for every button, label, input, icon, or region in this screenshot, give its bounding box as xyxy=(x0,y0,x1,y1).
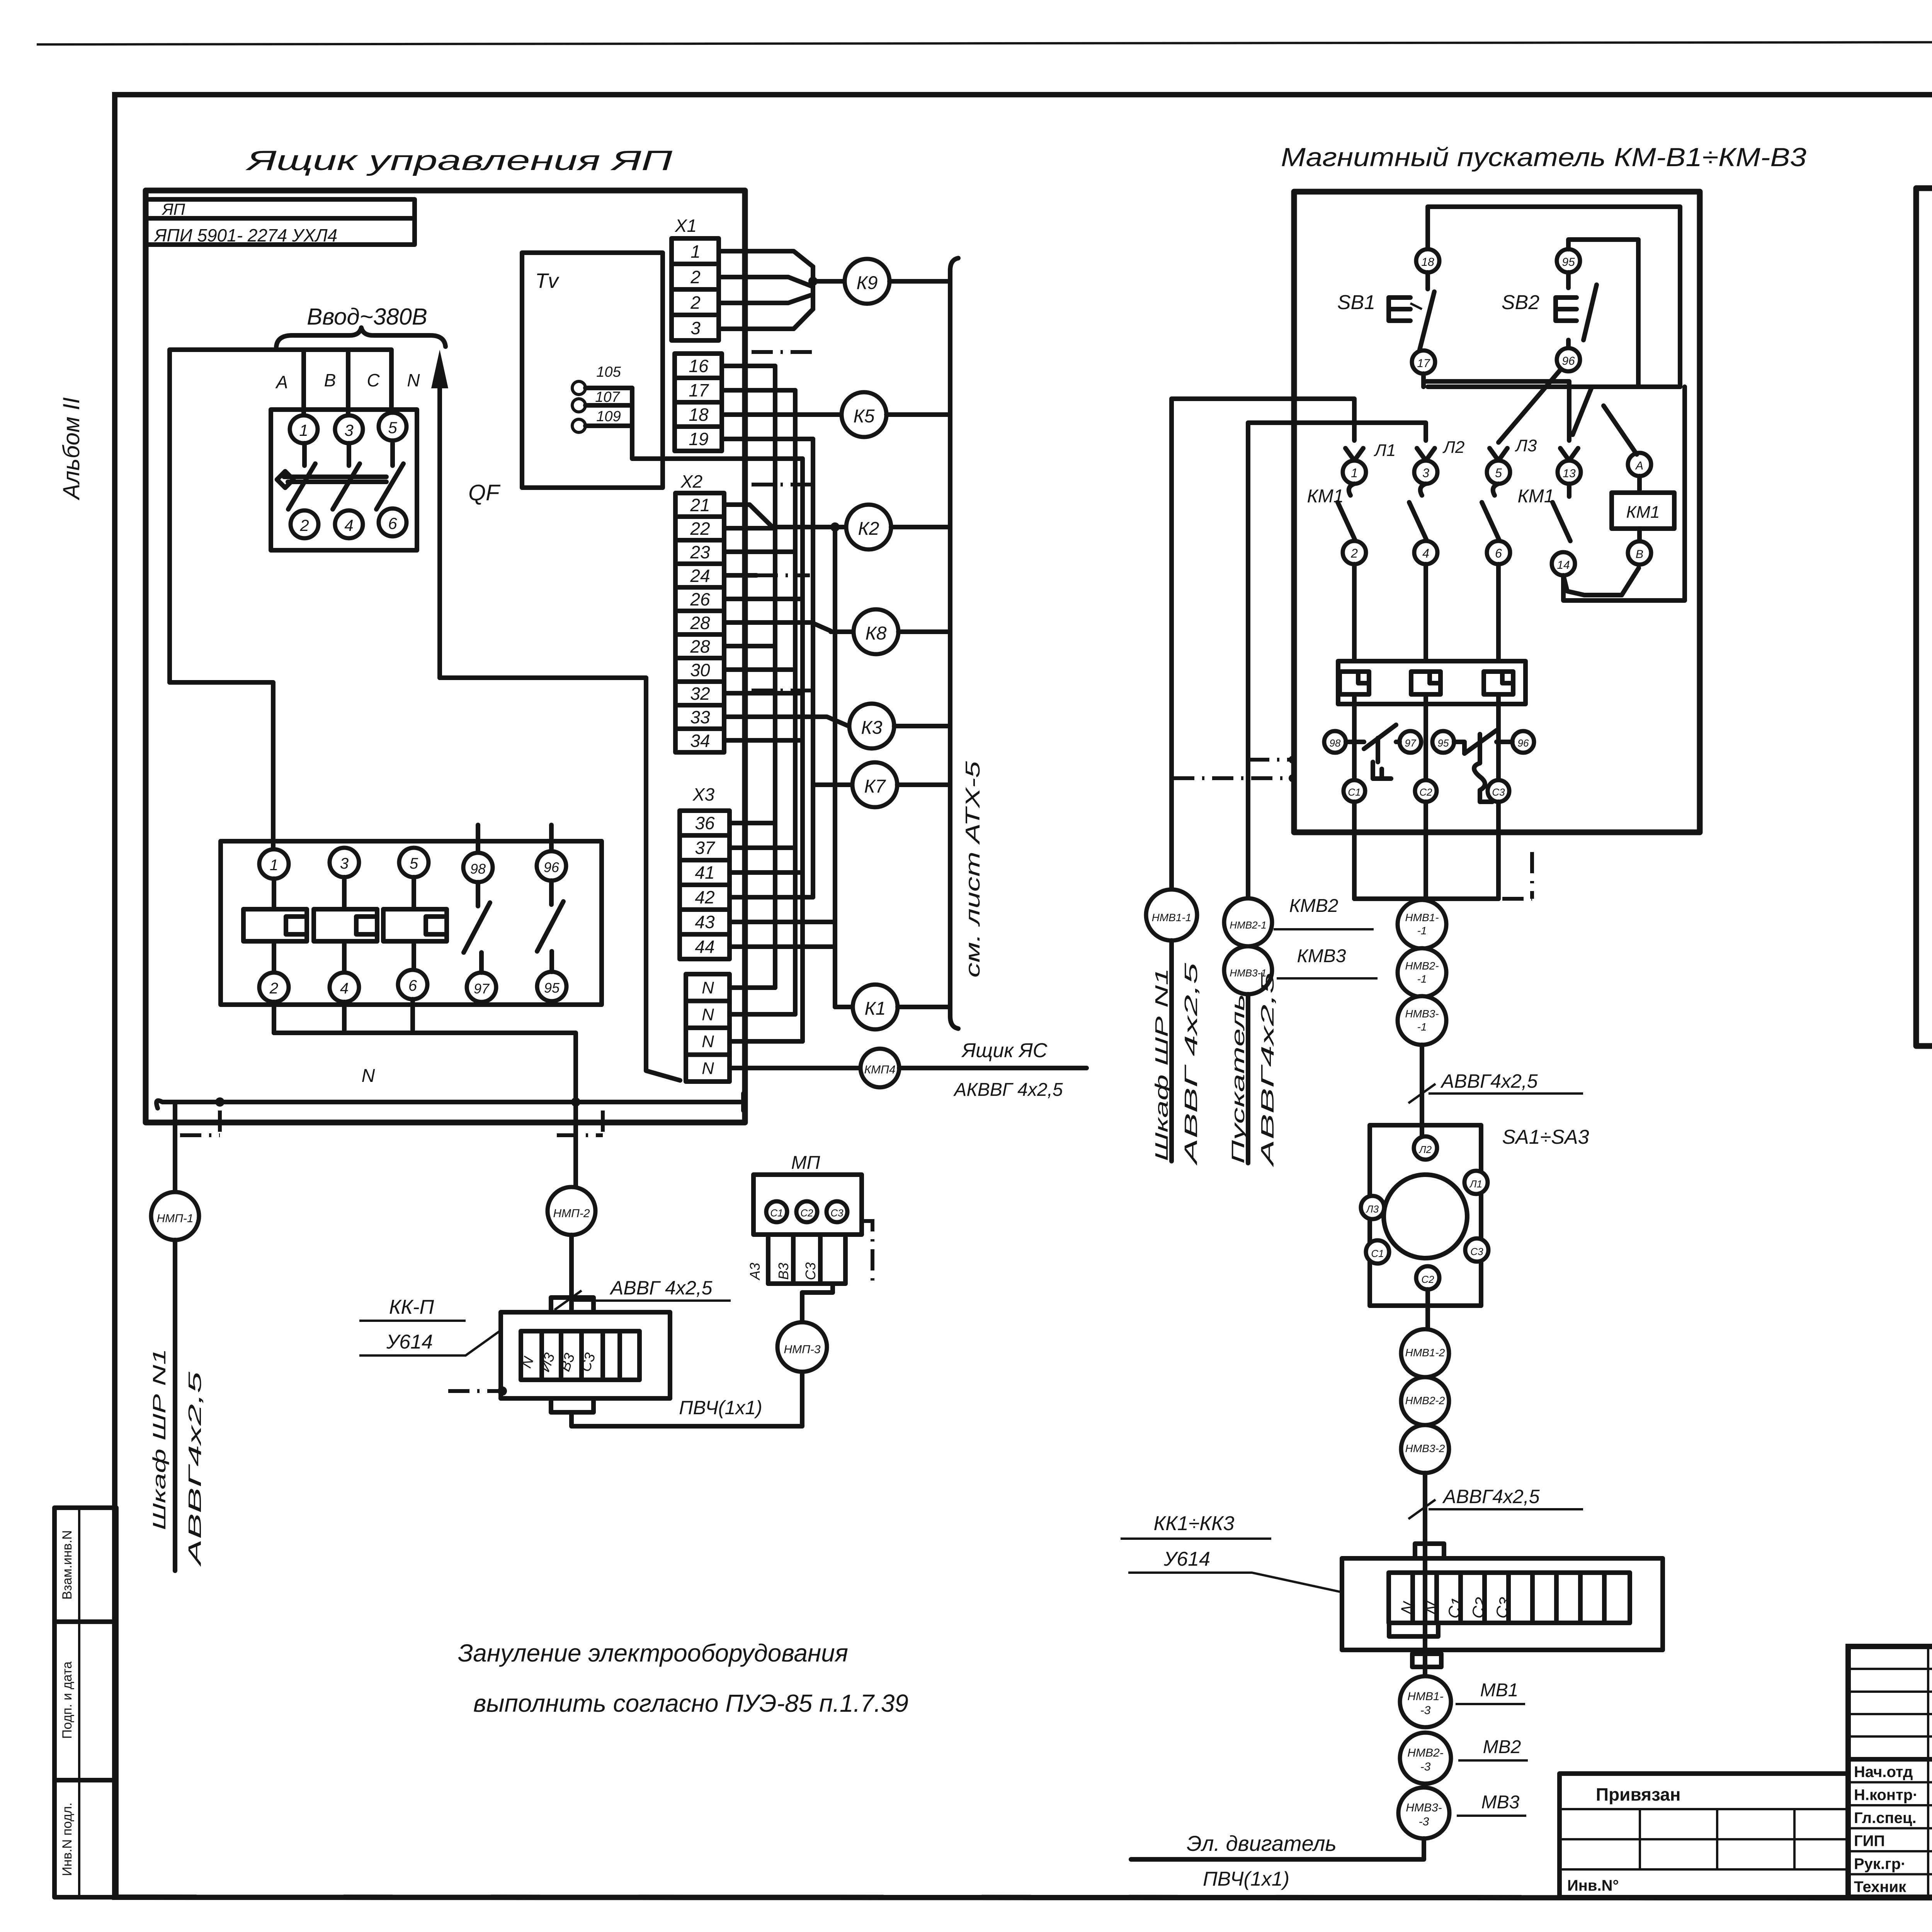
cable node НМВ2-1 (пускатель) xyxy=(1224,898,1272,946)
svg-text:Л3: Л3 xyxy=(1515,436,1537,455)
svg-text:N: N xyxy=(702,978,714,997)
magnetic starter box outline xyxy=(1294,192,1700,832)
svg-text:Л1: Л1 xyxy=(1374,441,1396,460)
thermal relay КК1-КК3 box xyxy=(1342,1558,1663,1650)
wire row33 to K3 xyxy=(724,717,849,726)
wire X3 row stubs xyxy=(730,821,775,825)
contactor coil КМ1 box xyxy=(1637,476,1642,493)
wires С1-С3 out of box to НМВ stack xyxy=(1352,802,1357,899)
contactor КМ1 pole Л2 xyxy=(1417,448,1435,461)
svg-text:96: 96 xyxy=(1518,737,1529,749)
svg-text:Взам.инв.N: Взам.инв.N xyxy=(60,1530,75,1600)
QF pole terminal 2 xyxy=(291,510,318,538)
svg-text:Л1: Л1 xyxy=(1469,1178,1482,1190)
svg-text:К7: К7 xyxy=(864,776,886,797)
selector terminal Л1 xyxy=(1464,1171,1488,1194)
svg-text:2: 2 xyxy=(690,267,701,287)
svg-text:95: 95 xyxy=(1438,737,1449,749)
svg-text:-3: -3 xyxy=(1419,1815,1429,1828)
svg-text:НМВ1-: НМВ1- xyxy=(1405,912,1439,923)
relay K5 xyxy=(842,392,886,437)
wire X2 row stubs xyxy=(724,526,775,531)
motor cable node НМВ3-3 xyxy=(1398,1787,1449,1838)
svg-text:N: N xyxy=(702,1005,714,1024)
selector terminal С1 xyxy=(1366,1240,1389,1264)
svg-text:21: 21 xyxy=(690,495,710,515)
QF pole terminal 5 xyxy=(379,413,406,440)
fuse element phase 3 xyxy=(330,848,359,877)
svg-text:X2: X2 xyxy=(680,471,702,492)
QF pole terminal 4 xyxy=(335,510,363,538)
QF pole terminal 3 xyxy=(335,415,363,443)
svg-text:13: 13 xyxy=(1563,467,1576,480)
svg-text:МВ3: МВ3 xyxy=(1481,1792,1520,1813)
wire row19 stub xyxy=(722,437,813,441)
svg-text:28: 28 xyxy=(690,613,710,633)
svg-text:К2: К2 xyxy=(858,519,879,539)
svg-text:КК1÷КК3: КК1÷КК3 xyxy=(1154,1512,1235,1535)
svg-text:-1: -1 xyxy=(1417,1021,1427,1033)
svg-text:ГИП: ГИП xyxy=(1854,1833,1885,1850)
aux contact 98-97 xyxy=(476,825,480,853)
wire N strip stubs xyxy=(730,985,775,990)
pushbutton box outline xyxy=(1428,207,1680,387)
svg-text:НМВ1-1: НМВ1-1 xyxy=(1152,912,1192,923)
svg-text:КМ1: КМ1 xyxy=(1307,486,1344,507)
svg-text:Подп. и дата: Подп. и дата xyxy=(60,1662,75,1739)
svg-text:АВВГ4х2,5: АВВГ4х2,5 xyxy=(1442,1486,1540,1507)
svg-text:17: 17 xyxy=(689,380,709,400)
svg-text:С3: С3 xyxy=(830,1207,844,1219)
motor cable node НМВ3-2 xyxy=(1401,1425,1449,1473)
relay КМП4 xyxy=(861,1049,899,1087)
svg-text:Ящик управления ЯП: Ящик управления ЯП xyxy=(245,145,673,176)
svg-text:НМВ2-2: НМВ2-2 xyxy=(1405,1395,1445,1406)
wires aux block bottom to N node xyxy=(272,1002,276,1033)
selector terminal Л2 xyxy=(1414,1136,1437,1160)
svg-text:Гл.спец.: Гл.спец. xyxy=(1854,1810,1917,1827)
svg-text:1: 1 xyxy=(1351,466,1358,480)
svg-text:АВВГ4х2,5: АВВГ4х2,5 xyxy=(1440,1070,1538,1092)
svg-text:Инв.N°: Инв.N° xyxy=(1567,1877,1619,1894)
cable bracket см.лист АТХ-5 xyxy=(950,258,958,1029)
dash-dot remote-link marks at starter box left xyxy=(1173,776,1291,780)
svg-text:3: 3 xyxy=(340,855,349,872)
svg-text:С2: С2 xyxy=(1421,1274,1434,1285)
svg-text:96: 96 xyxy=(544,859,560,875)
wire input bus to QF xyxy=(170,350,391,682)
node КМП4 wire across xyxy=(730,1066,861,1070)
title block upper-left grid xyxy=(1848,1668,1932,1670)
svg-text:SB1: SB1 xyxy=(1337,291,1375,314)
svg-text:14: 14 xyxy=(1557,559,1570,571)
wire QF arrow to X-strips xyxy=(440,678,680,1080)
wire 17 to 13 xyxy=(1423,381,1569,440)
svg-text:107: 107 xyxy=(595,389,620,405)
relay K1 xyxy=(835,1005,853,1009)
wire row17 stub xyxy=(722,388,795,393)
wire НМВ1-1 feed to contact 1 xyxy=(1172,399,1354,889)
motor cable node НМВ2-2 xyxy=(1401,1377,1449,1425)
svg-text:98: 98 xyxy=(1330,737,1341,749)
relay K8 xyxy=(854,609,898,654)
svg-text:Шкаф ШР N1: Шкаф ШР N1 xyxy=(149,1349,169,1530)
svg-text:SA1÷SA3: SA1÷SA3 xyxy=(1502,1126,1589,1148)
svg-text:34: 34 xyxy=(690,731,710,751)
fuse element phase 1 xyxy=(259,849,289,879)
thermal aux contact 95-96 xyxy=(1432,731,1454,753)
svg-text:К1: К1 xyxy=(865,998,886,1019)
svg-text:ЯП: ЯП xyxy=(162,200,185,218)
svg-text:-3: -3 xyxy=(1420,1704,1431,1717)
svg-text:НМВ2-: НМВ2- xyxy=(1405,960,1439,972)
svg-text:Ввод~380В: Ввод~380В xyxy=(307,304,427,330)
thermal terminals С1 С2 С3 xyxy=(1352,694,1357,780)
svg-text:2: 2 xyxy=(299,516,309,534)
left margin box Инв.N подл. xyxy=(54,1780,116,1897)
svg-text:2: 2 xyxy=(1350,546,1358,560)
svg-text:выполнить согласно ПУЭ-85: выполнить согласно ПУЭ-85 п.1.7.39 xyxy=(473,1689,908,1717)
svg-text:22: 22 xyxy=(690,519,710,539)
svg-text:6: 6 xyxy=(1495,546,1502,560)
Tv terminal 105 xyxy=(572,381,585,395)
svg-text:-1: -1 xyxy=(1417,925,1427,937)
selector rotor xyxy=(1384,1175,1467,1258)
svg-text:Шкаф ШР N1: Шкаф ШР N1 xyxy=(1151,968,1172,1161)
wire row28 to K8 xyxy=(724,622,831,631)
svg-text:МВ1: МВ1 xyxy=(1480,1680,1519,1701)
svg-text:30: 30 xyxy=(690,660,710,680)
svg-text:КМВ2: КМВ2 xyxy=(1289,896,1338,916)
relay K7 xyxy=(852,762,897,807)
svg-text:43: 43 xyxy=(695,912,715,932)
svg-text:1: 1 xyxy=(690,241,701,262)
svg-text:АВВГ 4х2,5: АВВГ 4х2,5 xyxy=(1181,963,1201,1166)
svg-text:С2: С2 xyxy=(800,1207,813,1219)
svg-text:4: 4 xyxy=(344,516,353,534)
Tv terminal 109 xyxy=(572,419,585,432)
svg-text:97: 97 xyxy=(1405,737,1417,749)
wire row18 to K5 xyxy=(722,412,842,417)
svg-text:С1: С1 xyxy=(770,1207,783,1219)
svg-text:Инв.N подл.: Инв.N подл. xyxy=(60,1803,75,1876)
wire stack to selector xyxy=(1420,1045,1424,1136)
svg-text:У614: У614 xyxy=(1163,1548,1210,1570)
svg-text:КМ1: КМ1 xyxy=(1626,503,1660,522)
dash-dot exit marks НМП-1 xyxy=(180,1133,220,1137)
dash-dot mark at МП xyxy=(862,1221,872,1281)
svg-text:КМВ3: КМВ3 xyxy=(1297,946,1346,966)
button terminal 96 xyxy=(1557,348,1580,371)
svg-text:НМВ3-: НМВ3- xyxy=(1405,1008,1439,1020)
svg-text:ПВЧ(1х1): ПВЧ(1х1) xyxy=(1203,1868,1289,1890)
motor cable node НМВ1-3 xyxy=(1400,1676,1451,1727)
svg-text:Эл. двигатель: Эл. двигатель xyxy=(1187,1831,1337,1855)
svg-text:Л2: Л2 xyxy=(1418,1144,1432,1155)
wires КМ1 poles to thermal relay xyxy=(1352,564,1357,661)
svg-text:44: 44 xyxy=(695,937,714,957)
cable node НМВ1-1 (шкаф ШР) xyxy=(1146,889,1197,940)
svg-text:ЯПИ 5901- 2274 УХЛ4: ЯПИ 5901- 2274 УХЛ4 xyxy=(153,225,337,245)
neutral bus N (ЯП) xyxy=(156,1100,743,1108)
aux contact 13-14 xyxy=(1560,448,1578,461)
svg-text:ПВЧ(1х1): ПВЧ(1х1) xyxy=(679,1397,762,1418)
auxiliary contact block (ЯП bottom) xyxy=(221,841,602,1005)
svg-text:37: 37 xyxy=(695,838,715,858)
motor cable node НМВ1-2 xyxy=(1401,1329,1449,1377)
signal box ЯС outline xyxy=(1916,188,1932,1046)
svg-text:N: N xyxy=(362,1066,375,1086)
title block outline xyxy=(1848,1646,1932,1897)
transformer Tv box xyxy=(522,253,663,488)
svg-text:К9: К9 xyxy=(857,273,878,293)
button terminal 95 xyxy=(1557,249,1580,272)
svg-text:Зануление электрооборудован: Зануление электрооборудования xyxy=(458,1639,848,1667)
coil terminal В xyxy=(1628,541,1651,565)
svg-text:Тv: Тv xyxy=(535,269,560,293)
dash-dot cable marks (ЯП right) xyxy=(752,350,813,354)
dash-dot mark below thermal xyxy=(1502,897,1532,901)
dash-dot ground mark КК-П xyxy=(448,1389,502,1393)
relay K3 xyxy=(849,704,894,748)
svg-text:18: 18 xyxy=(1421,256,1434,269)
svg-text:5: 5 xyxy=(410,855,418,872)
svg-text:КМ1: КМ1 xyxy=(1518,486,1554,507)
svg-text:С2: С2 xyxy=(1419,786,1432,798)
vertical bus wires (ЯП internal) xyxy=(773,366,777,988)
node НМП-1 xyxy=(173,1102,177,1193)
svg-text:-1: -1 xyxy=(1417,973,1427,985)
svg-text:4: 4 xyxy=(340,980,349,997)
svg-text:У614: У614 xyxy=(386,1331,433,1353)
svg-text:АВВГ 4х2,5: АВВГ 4х2,5 xyxy=(609,1277,713,1299)
svg-text:N: N xyxy=(702,1059,714,1078)
svg-text:Ящик ЯС: Ящик ЯС xyxy=(961,1039,1048,1062)
left margin box Подп. и дата xyxy=(54,1622,116,1780)
svg-text:Нач.отд: Нач.отд xyxy=(1854,1764,1913,1781)
svg-text:32: 32 xyxy=(690,684,710,704)
wires X1 rows to node K9 xyxy=(719,251,813,267)
box ЯП outline xyxy=(146,190,745,1122)
node НМП-2 xyxy=(548,1187,595,1235)
selector switch box SA1-SA3 xyxy=(1370,1125,1481,1306)
svg-text:19: 19 xyxy=(689,429,708,449)
coil terminal А xyxy=(1628,453,1651,476)
left margin box Взам.инв.N xyxy=(54,1508,116,1622)
wire bus step to fuse block xyxy=(170,682,273,849)
relay K2 xyxy=(846,505,891,549)
svg-text:2: 2 xyxy=(690,293,701,313)
svg-text:36: 36 xyxy=(695,813,715,833)
motor cable node НМВ2-3 xyxy=(1400,1733,1451,1784)
contactor КМ1 pole Л1 xyxy=(1345,448,1363,461)
binding strip Привязан xyxy=(1560,1774,1848,1897)
svg-text:1: 1 xyxy=(270,857,278,874)
SB2 bypass loop xyxy=(1568,240,1638,387)
node НМП-3 xyxy=(777,1322,827,1372)
wire through КК box xyxy=(1423,1558,1427,1650)
svg-text:АВВГ4х2,5: АВВГ4х2,5 xyxy=(1257,972,1277,1168)
svg-text:АКВВГ 4х2,5: АКВВГ 4х2,5 xyxy=(953,1080,1063,1100)
svg-text:МВ2: МВ2 xyxy=(1483,1737,1521,1757)
svg-text:С: С xyxy=(367,370,380,390)
wire to motor label xyxy=(1131,1838,1424,1859)
svg-text:18: 18 xyxy=(689,405,709,425)
contactor КМ1 pole Л3 xyxy=(1490,448,1507,461)
terminal strip N (ЯП) xyxy=(686,974,730,1082)
svg-text:2: 2 xyxy=(269,980,278,997)
QF designation arrow xyxy=(437,371,442,678)
svg-text:В3: В3 xyxy=(776,1263,791,1280)
svg-text:42: 42 xyxy=(695,887,714,907)
svg-text:3: 3 xyxy=(1422,466,1429,480)
svg-text:А: А xyxy=(275,372,288,392)
fuse element phase 5 xyxy=(399,848,429,877)
button terminal 17 xyxy=(1412,350,1435,374)
svg-text:N: N xyxy=(407,370,420,390)
svg-text:95: 95 xyxy=(544,980,560,996)
wire Tv terminals to bus xyxy=(632,388,803,459)
wire row16 stub xyxy=(722,364,775,368)
svg-text:НМП-3: НМП-3 xyxy=(784,1343,820,1356)
motor cable node НМВ2-1 (stack) xyxy=(1398,948,1446,997)
svg-text:Привязан: Привязан xyxy=(1596,1784,1681,1804)
wire КК-П to ПВЧ run xyxy=(571,1373,802,1426)
svg-text:1: 1 xyxy=(299,421,308,439)
svg-text:105: 105 xyxy=(596,364,621,380)
svg-text:КК-П: КК-П xyxy=(389,1296,434,1318)
svg-text:А3: А3 xyxy=(747,1263,763,1281)
wire selector to НМВ-2 stack xyxy=(1425,1289,1430,1329)
svg-text:X3: X3 xyxy=(692,784,715,804)
wire bottom edge diagonal to 13 xyxy=(1573,388,1592,435)
svg-text:28: 28 xyxy=(690,636,710,656)
svg-text:см. лист АТХ-5: см. лист АТХ-5 xyxy=(962,760,984,978)
wire box edge to А xyxy=(1604,406,1637,454)
svg-text:26: 26 xyxy=(690,589,710,609)
svg-text:К3: К3 xyxy=(861,718,883,738)
button terminal 18 xyxy=(1416,249,1439,272)
cable node НМВ3-1 (пускатель) xyxy=(1224,946,1272,994)
svg-text:98: 98 xyxy=(470,861,486,877)
thermal relay КК-П box xyxy=(501,1312,670,1398)
svg-text:95: 95 xyxy=(1562,256,1575,269)
motor cable node НМВ3-1 (stack) xyxy=(1398,996,1446,1045)
brace under Ввод label xyxy=(276,328,446,347)
svg-text:5: 5 xyxy=(1495,466,1502,480)
svg-text:НМВ1-2: НМВ1-2 xyxy=(1405,1347,1445,1359)
wire X2 row21 to K2 xyxy=(724,505,771,526)
svg-text:С1: С1 xyxy=(1371,1248,1384,1259)
svg-text:НМВ3-: НМВ3- xyxy=(1406,1801,1442,1814)
circuit breaker QF box xyxy=(271,410,417,550)
svg-text:В: В xyxy=(324,370,336,390)
svg-text:К5: К5 xyxy=(854,406,875,427)
thermal relay heaters box xyxy=(1338,661,1526,704)
svg-text:4: 4 xyxy=(1422,546,1429,560)
svg-text:К8: К8 xyxy=(866,623,887,644)
wire 96 diagonal to Л3 xyxy=(1498,369,1561,442)
svg-text:НМВ2-1: НМВ2-1 xyxy=(1230,919,1266,931)
wire 14 to В loop xyxy=(1563,568,1639,595)
wire 14 holding circuit xyxy=(1563,387,1685,600)
svg-text:17: 17 xyxy=(1417,357,1430,370)
svg-text:Л3: Л3 xyxy=(1366,1203,1379,1215)
svg-text:В: В xyxy=(1636,548,1643,561)
svg-text:НМВ2-: НМВ2- xyxy=(1407,1747,1443,1759)
relay K9 xyxy=(845,259,889,304)
svg-text:НМП-2: НМП-2 xyxy=(553,1207,590,1220)
svg-text:QF: QF xyxy=(468,480,501,505)
svg-text:КМП4: КМП4 xyxy=(864,1063,895,1076)
svg-text:Пускатель: Пускатель xyxy=(1228,994,1248,1164)
wire to K7 xyxy=(813,782,852,787)
svg-text:Н.контр·: Н.контр· xyxy=(1854,1787,1918,1804)
svg-text:109: 109 xyxy=(596,408,621,425)
svg-text:НМВ3-2: НМВ3-2 xyxy=(1405,1442,1445,1454)
svg-text:24: 24 xyxy=(690,566,710,586)
sheet top thin line xyxy=(37,42,1932,44)
starter МП box xyxy=(753,1175,862,1235)
svg-text:5: 5 xyxy=(388,418,397,437)
aux contact 96-95 xyxy=(549,825,554,851)
label box ЯП / ЯПИ 5901-2274 УХЛ4 xyxy=(146,199,415,245)
svg-text:6: 6 xyxy=(388,514,397,532)
svg-text:Л2: Л2 xyxy=(1442,438,1465,457)
svg-text:Альбом II: Альбом II xyxy=(58,397,84,500)
wire row24 dash-dot stub xyxy=(724,573,757,578)
МП bottom cells А3 В3 С3 xyxy=(766,1235,770,1284)
wire НМВ2-1 feed to contact 3 xyxy=(1248,423,1426,897)
QF pole terminal 1 xyxy=(290,415,318,443)
wire phase A drop xyxy=(301,350,306,415)
selector terminal Л3 xyxy=(1361,1196,1384,1219)
svg-text:НМВ1-: НМВ1- xyxy=(1407,1690,1443,1703)
terminal strip 16-19 (ЯП) xyxy=(675,354,722,451)
svg-text:С3: С3 xyxy=(1470,1246,1483,1257)
svg-text:3: 3 xyxy=(690,318,701,338)
svg-text:-3: -3 xyxy=(1420,1760,1431,1773)
QF contact blades and crossbar xyxy=(302,443,307,466)
КК terminal cells xyxy=(1389,1573,1630,1623)
svg-text:33: 33 xyxy=(690,707,710,727)
wire phase B drop xyxy=(346,350,350,415)
svg-text:Рук.гр·: Рук.гр· xyxy=(1854,1855,1906,1872)
QF pole terminal 6 xyxy=(379,509,406,536)
motor cable node НМВ1-1 (stack) xyxy=(1398,900,1446,949)
svg-text:А: А xyxy=(1635,459,1643,472)
svg-text:41: 41 xyxy=(695,862,714,883)
Tv terminal 107 xyxy=(572,399,585,412)
svg-text:МП: МП xyxy=(791,1153,820,1173)
selector terminal С2 xyxy=(1416,1266,1439,1289)
svg-text:С3: С3 xyxy=(803,1262,818,1280)
svg-text:Техник: Техник xyxy=(1854,1879,1906,1896)
svg-text:6: 6 xyxy=(408,977,417,994)
dash-dot exit marks НМП-2 xyxy=(557,1133,603,1137)
КК-П terminal cells xyxy=(521,1331,639,1380)
svg-text:С3: С3 xyxy=(1492,786,1505,798)
svg-text:SB2: SB2 xyxy=(1502,291,1539,314)
wire stack-2 down xyxy=(1423,1473,1427,1558)
svg-text:23: 23 xyxy=(690,542,710,562)
svg-text:97: 97 xyxy=(474,981,490,997)
svg-text:16: 16 xyxy=(689,356,709,376)
thermal aux contact 98-97 xyxy=(1324,731,1346,753)
selector terminal С3 xyxy=(1465,1238,1488,1262)
svg-text:Магнитный пускатель КМ-В1÷КМ-: Магнитный пускатель КМ-В1÷КМ-В3 xyxy=(1281,143,1806,172)
svg-text:N: N xyxy=(702,1032,714,1051)
